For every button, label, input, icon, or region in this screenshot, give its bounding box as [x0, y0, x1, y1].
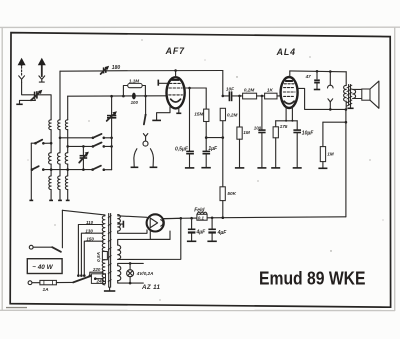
wire L2 end: [59, 190, 61, 201]
electrolytic 4uF first: [187, 218, 206, 241]
speaker plug upper: [328, 72, 334, 89]
AL4 anode plate: [285, 80, 293, 82]
resistor 1M feedback: [318, 122, 346, 168]
AF7 metallisation stub: [176, 107, 181, 113]
wire L3 crossing: [67, 164, 69, 176]
AF7 grid cap terminal: [158, 80, 167, 86]
tuning capacitor C1: [107, 111, 117, 121]
dial lamp wires: [118, 262, 144, 284]
svg-text:4µF: 4µF: [196, 230, 207, 236]
resistor 1,1M bypass loop: [123, 78, 145, 96]
svg-text:1,1M: 1,1M: [129, 78, 139, 83]
svg-text:240: 240: [96, 279, 105, 284]
resistor 175 cathode: [271, 121, 288, 168]
svg-text:10F: 10F: [226, 87, 234, 92]
svg-text:110: 110: [86, 220, 94, 225]
AL4 top lead: [289, 71, 291, 77]
wire L2 crossing: [59, 164, 61, 176]
antenna trimmer capacitor: [31, 90, 42, 101]
primary winding lower: [102, 260, 105, 285]
band switch S2a row1: [92, 134, 113, 139]
wire HT bottom to rectifier: [118, 230, 147, 233]
wire row1 from L2 to switch: [59, 137, 93, 140]
svg-text:1A: 1A: [43, 287, 50, 293]
tap 220: [89, 267, 104, 277]
output transformer secondary: [353, 89, 356, 98]
output transformer core ground: [347, 105, 353, 108]
svg-text:1K: 1K: [267, 88, 274, 93]
svg-text:175: 175: [280, 124, 288, 129]
padder trimmer capacitor C2: [79, 146, 89, 169]
tap 130: [80, 229, 103, 277]
svg-text:130: 130: [85, 229, 93, 234]
wire 1K to AL4 grid: [277, 95, 281, 97]
band switch S1a left: [31, 140, 52, 145]
wire filament winding bottom to B plus: [118, 218, 181, 259]
transformer primary winding: [62, 210, 105, 251]
wire HT top to rectifier: [118, 216, 147, 218]
rectifier tube AZ11: [147, 214, 164, 231]
AL4 top rail to output transformer: [290, 70, 346, 73]
svg-text:1µF: 1µF: [208, 146, 218, 152]
resistor 15M: [194, 88, 209, 151]
AF7 cathode lead to ground: [152, 107, 170, 121]
svg-text:1M: 1M: [327, 151, 334, 156]
AL4 cathode: [284, 101, 294, 104]
svg-text:100: 100: [254, 125, 262, 130]
antenna A1 symbol: [18, 58, 26, 76]
antenna A1 socket: [19, 76, 25, 83]
resistor 1K horizontal: [265, 88, 277, 99]
coil L3 bottom winding: [65, 176, 67, 190]
wire 0.2M to 1K: [257, 95, 265, 98]
wire grid line bend to coil L3: [67, 96, 69, 120]
AF7 grid rows: [169, 83, 183, 95]
coil L3 top winding: [65, 120, 67, 130]
band switch S2c row3: [91, 166, 111, 171]
electrolytic 4uF second: [207, 218, 227, 242]
wire L3 mid: [67, 130, 69, 153]
dust specks: [28, 39, 384, 300]
AF7 cathode: [171, 99, 181, 102]
output transformer core: [347, 85, 353, 107]
border frame: [10, 33, 390, 308]
phono jack branch: [131, 96, 158, 167]
wire antenna A1 down to trimmer: [22, 83, 34, 95]
svg-text:180: 180: [112, 65, 121, 71]
B plus rail bottom: [164, 216, 346, 219]
coil L2 bottom winding: [58, 176, 60, 190]
svg-text:50K: 50K: [227, 191, 236, 196]
resistor 1M grid leak AL4: [235, 96, 250, 168]
top rail left segment: [60, 70, 103, 72]
wire trimmer to coil L1: [37, 95, 51, 120]
speaker driver and horn: [353, 81, 379, 108]
wire switch to primary top: [61, 210, 63, 248]
wire cross link 15M to 0.2M line: [206, 136, 224, 139]
wire left switch column: [30, 143, 32, 200]
dial lamp 4V 0,2A: [127, 263, 154, 283]
wire rail bend down to 0.2M: [222, 71, 224, 96]
tap 150: [83, 236, 103, 277]
svg-text:Feld: Feld: [194, 208, 205, 214]
antenna A2 socket: [39, 76, 45, 82]
earth ground at antenna: [16, 98, 35, 104]
svg-text:0,5µF: 0,5µF: [175, 146, 189, 152]
coil L3 mid winding: [65, 153, 68, 164]
wire cap to 0.2M: [232, 95, 243, 98]
coil L2 top winding: [58, 120, 60, 130]
tube AL4 envelope: [281, 77, 298, 108]
wire L1 end: [50, 190, 52, 201]
transformer dial lamp winding: [118, 266, 121, 281]
voltage selector lever: [73, 276, 91, 283]
rectifier filament loop: [150, 230, 170, 239]
svg-text:AZ 11: AZ 11: [141, 284, 161, 291]
coil L1 bottom winding: [49, 176, 51, 190]
svg-text:0,5A: 0,5A: [96, 252, 101, 262]
svg-text:AL4: AL4: [276, 47, 296, 57]
tube AF7 envelope: [167, 77, 185, 108]
capacitor 1uF: [201, 146, 218, 168]
band switch S1b left on row 3: [31, 166, 45, 171]
field coil choke Feld 0,1: [194, 208, 207, 221]
wire L2 mid: [59, 130, 61, 153]
svg-text:100: 100: [131, 100, 139, 105]
wire top rail bend to coil L2: [59, 71, 61, 120]
svg-text:1M: 1M: [243, 130, 250, 135]
resistor 0,2M horizontal: [243, 88, 257, 99]
wire row2 from L3 to switch: [66, 145, 93, 148]
svg-text:4V/0,2A: 4V/0,2A: [136, 271, 154, 276]
mains fuse 1A: [28, 280, 73, 293]
coupling capacitor 10F: [226, 87, 234, 102]
wire L1 crossing: [50, 164, 52, 176]
svg-text:0,2M: 0,2M: [244, 88, 255, 93]
transformer HT secondary winding: [118, 215, 121, 231]
svg-text:Emud 89 WKE: Emud 89 WKE: [259, 268, 366, 288]
coil L2 mid winding: [58, 153, 61, 164]
AL4 cathode leads: [276, 107, 298, 122]
AL4 anode wire to output: [298, 88, 348, 110]
resistor 0,2M vertical: [220, 95, 237, 187]
wire to coupling cap: [223, 95, 229, 97]
primary thermal fuse 0,5A: [96, 252, 107, 262]
svg-text:~ 40 W: ~ 40 W: [32, 264, 53, 271]
svg-text:15M: 15M: [194, 112, 203, 117]
capacitor 10uF cathode: [293, 121, 315, 168]
wire rectifier output to rail: [163, 217, 181, 220]
svg-text:220: 220: [92, 267, 101, 272]
transformer filament winding: [118, 245, 121, 259]
coil L1 mid winding: [49, 153, 52, 164]
power rating box 40W: [27, 259, 62, 274]
coil L1 top winding: [49, 120, 51, 130]
top rail mid segment: [106, 69, 223, 72]
mains switch: [29, 245, 61, 252]
output transformer primary: [344, 72, 347, 110]
AL4 grid rows: [283, 84, 295, 97]
svg-text:150: 150: [86, 236, 94, 241]
band switch S2b row2: [92, 143, 113, 148]
wire row3 across: [43, 168, 92, 171]
capacitor 47 tone: [305, 71, 321, 89]
wire L1 mid: [50, 130, 52, 153]
svg-text:0,2M: 0,2M: [227, 112, 238, 117]
mains transformer core: [108, 214, 112, 288]
voltage selector box: [91, 274, 105, 284]
svg-text:10µF: 10µF: [302, 130, 314, 136]
core ground: [104, 287, 115, 291]
svg-text:4µF: 4µF: [217, 230, 228, 236]
tap 240: [94, 277, 105, 283]
grid wire AF7: [68, 95, 167, 98]
capacitor 0,5uF branch: [175, 88, 194, 168]
wire filament winding top: [118, 239, 170, 245]
resistor 100 bead in grid wire: [131, 93, 139, 106]
tuning gang wire down: [111, 96, 113, 115]
speaker plug lower: [328, 99, 333, 110]
trimmer capacitor 180: [101, 66, 110, 74]
capacitor 100 branch: [254, 96, 267, 168]
AF7 anode plate: [171, 79, 179, 81]
AF7 top lead to rail: [175, 71, 177, 78]
B plus vertical right: [345, 110, 348, 217]
antenna A2 symbol: [38, 58, 46, 76]
svg-text:AF7: AF7: [165, 46, 186, 56]
svg-text:0,1: 0,1: [198, 216, 205, 221]
resistor 50K: [220, 187, 237, 218]
HT center tap to chassis: [118, 221, 124, 228]
wire L3 end: [67, 190, 69, 201]
AF7 anode wire: [185, 87, 207, 90]
tap 110: [77, 220, 103, 277]
svg-text:47: 47: [305, 74, 312, 79]
wire tuning cap down to switch rows: [111, 118, 113, 170]
